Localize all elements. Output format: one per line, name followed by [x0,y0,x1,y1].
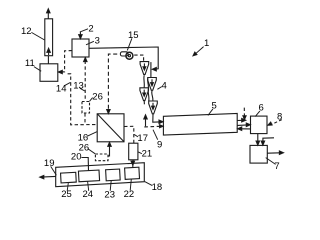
svg-text:25: 25 [61,189,72,200]
svg-text:17: 17 [137,133,148,144]
svg-text:23: 23 [104,189,115,200]
svg-text:26: 26 [79,143,90,154]
svg-text:22: 22 [124,189,135,200]
svg-text:2: 2 [88,24,93,35]
svg-text:19: 19 [44,158,55,169]
svg-text:9: 9 [157,139,162,150]
svg-text:11: 11 [25,58,35,69]
svg-text:21: 21 [142,148,153,159]
svg-text:5: 5 [212,100,217,111]
svg-text:8: 8 [277,111,282,122]
svg-text:7: 7 [274,161,279,172]
svg-text:6: 6 [259,102,264,113]
svg-text:1: 1 [204,38,209,49]
svg-text:3: 3 [95,36,100,47]
svg-text:14: 14 [56,83,67,94]
svg-text:26: 26 [92,92,103,103]
svg-text:15: 15 [128,30,139,41]
svg-text:24: 24 [83,189,94,200]
svg-text:12: 12 [21,26,32,37]
svg-text:4: 4 [161,81,166,92]
svg-text:13: 13 [73,80,84,91]
svg-text:18: 18 [152,182,163,193]
